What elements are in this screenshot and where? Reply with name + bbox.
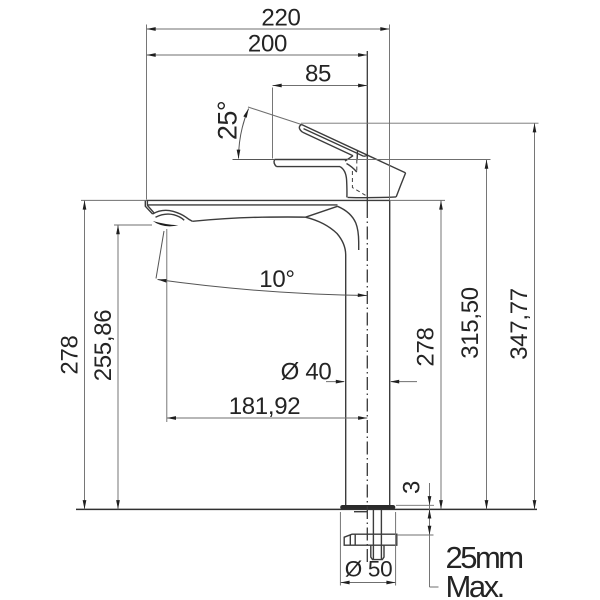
dim dia40 right line+arrow	[391, 381, 417, 383]
dim 278 left ext	[81, 199, 147, 201]
dim 85 arrows	[273, 84, 282, 88]
spout underside facet line	[306, 206, 338, 217]
dim 181,92 line	[167, 417, 367, 419]
dim 347,77 ext	[301, 122, 539, 124]
svg-text:200: 200	[248, 31, 287, 58]
svg-text:10°: 10°	[259, 266, 294, 293]
handle base front edge	[356, 151, 358, 160]
dim 315,50 ext	[347, 159, 491, 161]
dim dia40 left line+arrow	[326, 381, 344, 383]
svg-text:278: 278	[57, 335, 84, 374]
dim 347,77 vertical	[534, 123, 536, 509]
hidden line 2 (dashed)	[356, 160, 358, 172]
lever tip cap	[299, 125, 302, 133]
dim 200 line	[147, 54, 368, 56]
10deg stream line	[156, 231, 164, 279]
lever construction line 25deg	[248, 107, 302, 125]
svg-text:278: 278	[413, 327, 440, 366]
25deg arc	[239, 109, 249, 159]
aerator dome inner	[156, 214, 185, 220]
lever second edge line	[304, 129, 367, 157]
dim 25mm arrow	[428, 526, 432, 535]
dim dia50 line	[340, 582, 395, 584]
dim 255,86 ext	[114, 224, 152, 226]
handle base bottom	[348, 196, 397, 199]
mounting washer plate	[344, 534, 397, 545]
dim 181,92 arrows	[167, 416, 176, 420]
washer tick 2	[354, 534, 356, 545]
dim dia50 arrows	[340, 581, 349, 585]
cap bar left end	[274, 160, 276, 167]
supply stud left line	[372, 510, 374, 534]
body left edge	[345, 255, 347, 506]
dim 278 right ext	[390, 199, 445, 201]
ext line left 220/200	[146, 25, 148, 200]
ext line 85 left	[272, 88, 274, 159]
10deg arc	[158, 280, 368, 296]
dim 315,50 vertical	[486, 160, 488, 510]
25deg vertex horizontal line	[233, 159, 275, 161]
washer tick 1	[349, 535, 351, 545]
dim 255,86 vertical	[117, 225, 119, 509]
faucet spout deck top line	[147, 199, 390, 201]
handle base rear edge	[396, 173, 405, 197]
svg-text:25°: 25°	[213, 101, 243, 140]
svg-text:85: 85	[305, 61, 331, 88]
dim 85 line	[273, 85, 368, 87]
svg-text:3: 3	[399, 481, 426, 494]
lever underside fillet to cap	[345, 156, 353, 161]
dim 25mm ext (washer top)	[397, 534, 434, 536]
svg-text:Ø 50: Ø 50	[345, 557, 393, 582]
lever top edge	[302, 125, 406, 173]
dim 200 arrows	[147, 53, 156, 57]
neck left S-curve	[340, 167, 347, 198]
svg-text:347,77: 347,77	[506, 288, 533, 360]
neck small curve to base	[347, 164, 357, 173]
dim 220 line	[147, 28, 390, 30]
dim 315,50 arrows	[485, 160, 489, 169]
aerator outlet slot (filled)	[153, 221, 179, 226]
ext line right 220	[389, 25, 391, 201]
svg-text:Max.: Max.	[446, 569, 503, 600]
hidden cartridge lines (dashed)	[352, 171, 365, 195]
aerator dome outer	[153, 210, 193, 221]
dim 347,77 arrows	[533, 123, 537, 132]
dim 278 left arrows	[83, 200, 87, 209]
svg-text:Ø 40: Ø 40	[281, 359, 332, 386]
svg-text:181,92: 181,92	[229, 393, 301, 420]
centerline dash-dot	[366, 205, 368, 562]
10deg arc arrows	[157, 278, 167, 283]
nut thread lines	[373, 545, 381, 559]
dim 278 right arrows	[439, 200, 443, 209]
dim 220 arrows	[147, 27, 156, 31]
cap bar top	[275, 159, 347, 161]
lever underside	[303, 132, 353, 155]
countertop line	[76, 508, 537, 510]
supply stud right line	[380, 510, 382, 534]
spout tip front face outer	[145, 200, 152, 214]
dim 181,92 ext	[166, 229, 168, 422]
base flange (dark bar)	[343, 505, 394, 510]
spout inner fillet curve	[338, 206, 359, 250]
svg-text:220: 220	[261, 5, 300, 32]
dim 278 right vertical	[440, 200, 442, 509]
dim dia50 ext lines	[340, 512, 395, 586]
centerline solid upper	[366, 51, 368, 205]
spout underside	[192, 217, 345, 255]
spout tip front face inner	[147, 200, 154, 213]
dim 255,86 arrows	[116, 225, 120, 234]
stud through washer	[373, 534, 381, 545]
dim 3 vertical + arrows	[430, 483, 439, 587]
dim 3 ext (flange top)	[396, 504, 434, 506]
svg-text:255,86: 255,86	[90, 310, 117, 382]
clamp nut	[371, 545, 384, 559]
dim 278 left vertical	[84, 200, 86, 509]
flange recess under counter	[354, 511, 367, 513]
svg-text:315,50: 315,50	[457, 287, 484, 359]
body right edge	[389, 200, 391, 505]
25deg arc arrows	[243, 108, 250, 118]
cap bar bottom	[277, 166, 341, 168]
faucet spout deck second line	[147, 204, 337, 206]
